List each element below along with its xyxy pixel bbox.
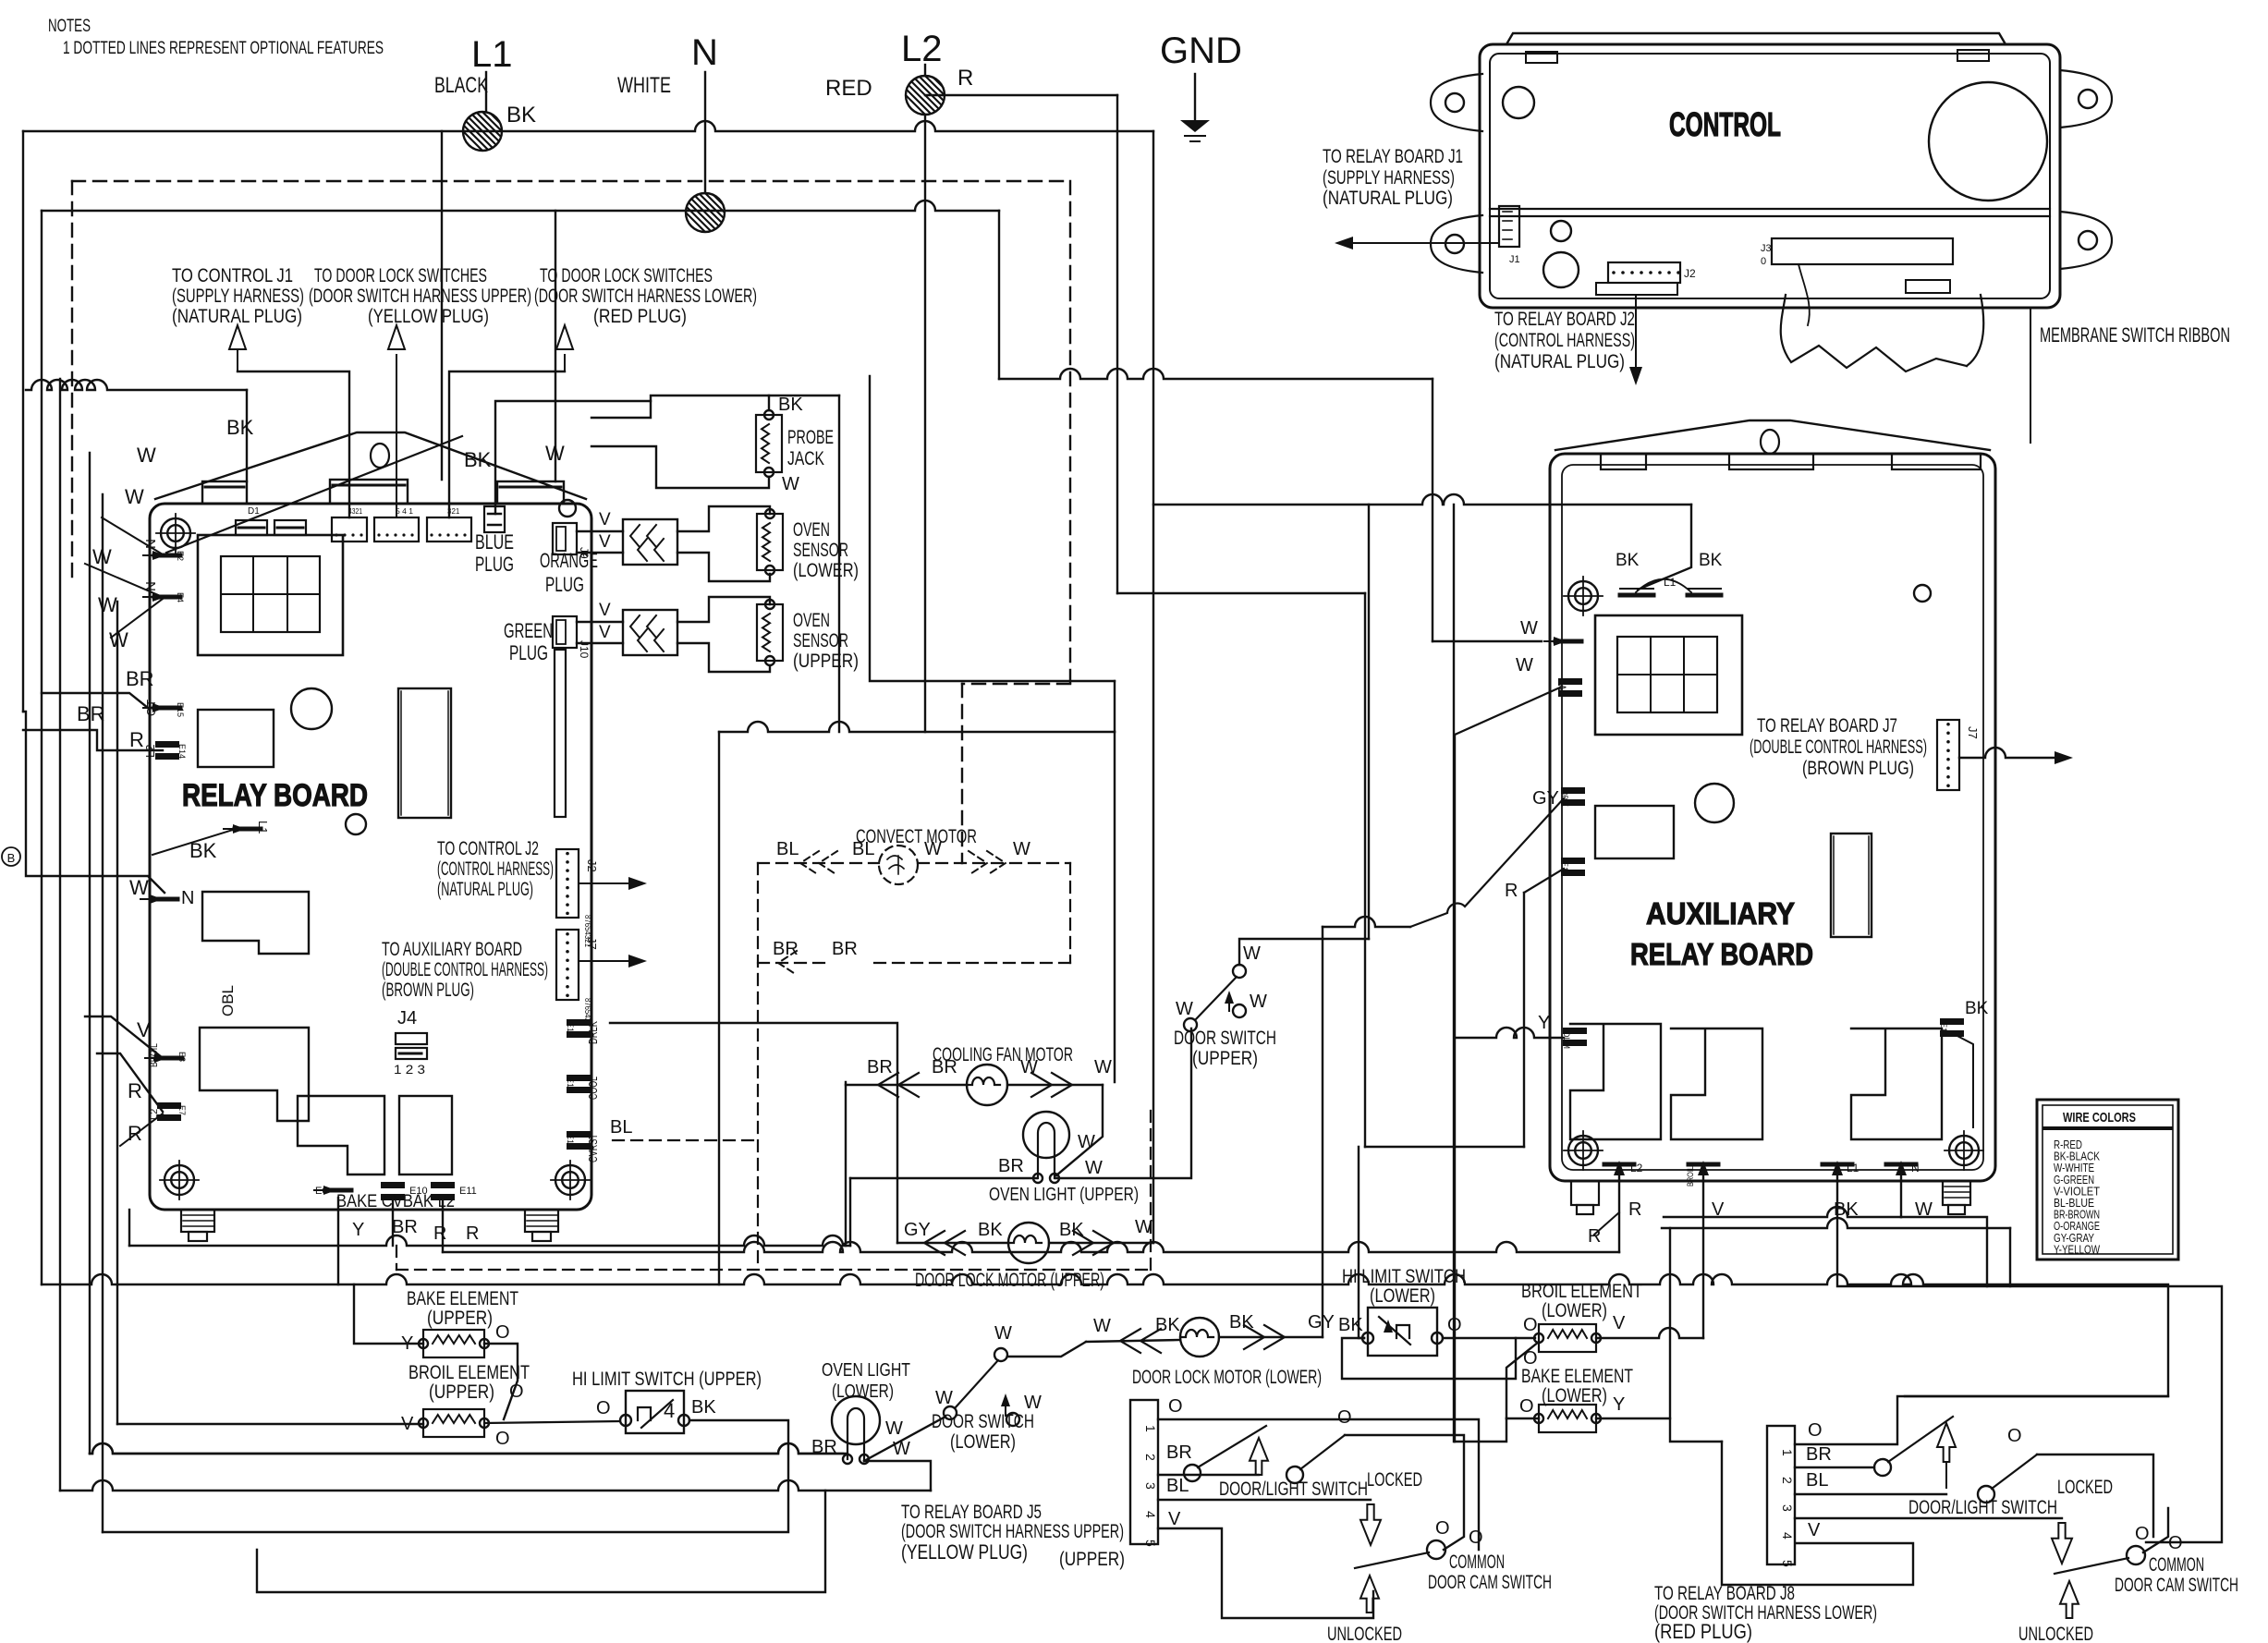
svg-text:V: V	[1613, 1313, 1626, 1333]
svg-text:OVEN: OVEN	[793, 519, 830, 541]
svg-text:GY: GY	[1532, 788, 1559, 809]
svg-text:DOOR CAM SWITCH: DOOR CAM SWITCH	[1428, 1572, 1552, 1593]
terminal E15 OT	[154, 706, 180, 711]
wire R to E7	[97, 1053, 163, 1112]
wire BR to E15	[42, 693, 163, 708]
svg-text:W: W	[1013, 839, 1030, 859]
wire x1630 down	[1455, 1418, 1506, 1442]
wire L1 BK down right	[1837, 1171, 2168, 1396]
aux top tabs	[1601, 454, 1646, 469]
terminal E12 CVRST	[567, 1131, 591, 1138]
wire hi limit BK down	[103, 1420, 788, 1532]
wire door switch lower top to motor	[1007, 1342, 1086, 1357]
svg-text:O: O	[495, 1429, 510, 1449]
svg-text:BR: BR	[126, 667, 154, 690]
svg-text:DLM: DLM	[1562, 1031, 1571, 1049]
aux board outline	[1550, 454, 1995, 1181]
svg-text:O: O	[596, 1398, 611, 1418]
control divider	[1490, 208, 2050, 210]
svg-text:TO RELAY BOARD J5: TO RELAY BOARD J5	[901, 1502, 1042, 1523]
svg-text:BR: BR	[77, 702, 105, 725]
svg-text:AUXILIARY: AUXILIARY	[1646, 896, 1795, 931]
svg-text:BAKE ELEMENT: BAKE ELEMENT	[1521, 1366, 1633, 1387]
svg-text:(LOWER): (LOWER)	[1370, 1285, 1435, 1307]
wire cooling fan right W	[1007, 1084, 1103, 1086]
wire roof feed y422	[26, 380, 247, 390]
svg-text:V: V	[599, 601, 611, 620]
svg-text:TO CONTROL J1: TO CONTROL J1	[172, 265, 293, 286]
svg-text:BK: BK	[1059, 1220, 1084, 1240]
svg-text:(UPPER): (UPPER)	[793, 651, 859, 672]
svg-text:R: R	[466, 1223, 479, 1244]
svg-text:Y: Y	[1613, 1394, 1625, 1415]
connector D1	[236, 520, 267, 535]
svg-text:E11: E11	[459, 1186, 477, 1197]
relay relay3 rect	[399, 1096, 452, 1174]
svg-text:OVEN: OVEN	[793, 610, 830, 631]
wire blue plug up	[495, 401, 651, 514]
wire J8 pin4	[1795, 1517, 2062, 1519]
door lock motor upper	[1008, 1223, 1049, 1263]
aux Y terminal	[1563, 1028, 1587, 1034]
svg-text:(NATURAL PLUG): (NATURAL PLUG)	[1323, 188, 1453, 209]
svg-text:BK: BK	[1616, 551, 1640, 570]
svg-text:LOCKED: LOCKED	[2057, 1477, 2113, 1498]
svg-text:J2: J2	[1684, 267, 1696, 280]
wire left margin vertical x25	[22, 131, 24, 712]
connector J5 relay	[374, 517, 419, 542]
wire sensor lower V wires	[577, 530, 623, 532]
svg-text:R: R	[128, 1122, 142, 1145]
svg-text:WHITE: WHITE	[617, 73, 671, 98]
svg-text:5: 5	[1143, 1540, 1158, 1547]
svg-text:BROIL: BROIL	[1686, 1166, 1695, 1187]
wire left x127	[116, 602, 118, 1424]
wire probe top	[591, 396, 769, 418]
svg-text:TO RELAY BOARD J8: TO RELAY BOARD J8	[1654, 1583, 1795, 1604]
svg-text:BR: BR	[998, 1156, 1024, 1176]
svg-text:PLUG: PLUG	[475, 553, 514, 576]
svg-text:W: W	[109, 628, 128, 651]
wire BR run y1348	[129, 1235, 850, 1246]
wire x778 vertical	[718, 732, 720, 1284]
svg-text:O: O	[1523, 1315, 1538, 1335]
wire R net bottom	[1365, 1146, 1524, 1148]
aux rect component	[1595, 806, 1674, 858]
wire W roof diagonal	[166, 436, 462, 553]
svg-text:NOTES: NOTES	[48, 17, 91, 36]
svg-text:R: R	[128, 1079, 142, 1102]
svg-text:BK: BK	[1965, 999, 1989, 1018]
svg-text:O: O	[1519, 1396, 1534, 1417]
wire sensor upper V wires	[577, 621, 623, 623]
wire left x111	[102, 494, 104, 1532]
wire dashed optional top y196	[72, 180, 1070, 182]
wire W y1613	[60, 1480, 931, 1491]
svg-text:(CONTROL HARNESS): (CONTROL HARNESS)	[437, 858, 554, 880]
svg-text:W: W	[1520, 618, 1538, 639]
aux board roof	[1555, 420, 1990, 450]
svg-text:E3: E3	[177, 1052, 187, 1062]
wire left x97	[89, 453, 91, 1454]
aux transformer	[1595, 615, 1742, 735]
wire right cam O loop	[2146, 1286, 2222, 1542]
relay screws	[161, 518, 190, 548]
wire x1863 to J8 V	[1722, 1442, 1913, 1585]
svg-text:E4: E4	[176, 592, 185, 602]
wire broil upper V	[117, 1423, 423, 1425]
svg-text:W: W	[1020, 1057, 1038, 1077]
wire broil lower O diagonal	[1506, 1342, 1539, 1418]
svg-text:BLACK: BLACK	[434, 73, 488, 98]
control circle big	[1929, 82, 2047, 201]
control connector J2	[1608, 262, 1680, 283]
wire control J2 down arrow	[1635, 295, 1637, 379]
svg-text:(UPPER): (UPPER)	[1059, 1549, 1125, 1570]
svg-text:BL: BL	[776, 839, 799, 859]
svg-text:WIRE COLORS: WIRE COLORS	[2063, 1110, 2136, 1126]
svg-text:BK: BK	[1229, 1312, 1254, 1333]
svg-text:PLUG: PLUG	[509, 641, 548, 664]
svg-text:DOOR LOCK MOTOR (UPPER): DOOR LOCK MOTOR (UPPER)	[915, 1270, 1104, 1291]
svg-text:N: N	[181, 888, 194, 908]
wire sensor lower to resistor	[677, 506, 770, 531]
svg-text:V: V	[599, 510, 611, 529]
connector J7 relay edge	[556, 930, 579, 1000]
svg-text:(BROWN PLUG): (BROWN PLUG)	[382, 980, 474, 1001]
door light switch arrow	[1250, 1438, 1268, 1475]
svg-text:W: W	[1516, 655, 1533, 675]
wire dashed left vertical x78	[71, 181, 73, 582]
aux bottom relay2	[1671, 1028, 1762, 1139]
wire hi limit lower O to broil lower	[1443, 1337, 1535, 1339]
svg-text:GY: GY	[1308, 1312, 1335, 1333]
svg-text:BR: BR	[867, 1057, 893, 1077]
control right ear lower	[2060, 212, 2112, 269]
aux screws	[1568, 581, 1598, 611]
svg-text:BK: BK	[691, 1397, 716, 1418]
svg-text:DOOR LOCK MOTOR (LOWER): DOOR LOCK MOTOR (LOWER)	[1132, 1367, 1322, 1388]
wire hi limit lower BK	[1359, 1147, 1364, 1338]
svg-text:W: W	[92, 545, 112, 568]
svg-text:4: 4	[664, 1399, 675, 1422]
control connector J3 ribbon	[1772, 238, 1953, 264]
orange plug connector	[553, 523, 577, 554]
svg-text:L2: L2	[149, 1109, 160, 1120]
svg-text:BLUE: BLUE	[475, 530, 514, 554]
svg-text:L1: L1	[256, 821, 270, 834]
terminal E7	[157, 1102, 181, 1109]
foot right	[525, 1210, 558, 1232]
connector J2 relay edge	[556, 849, 579, 918]
svg-text:(UPPER): (UPPER)	[427, 1308, 493, 1329]
svg-text:O: O	[2007, 1426, 2022, 1446]
svg-text:RED: RED	[825, 76, 872, 101]
wire bake upper O to broil	[484, 1344, 518, 1419]
svg-text:W: W	[1555, 682, 1568, 693]
svg-text:(NATURAL PLUG): (NATURAL PLUG)	[1494, 351, 1625, 372]
svg-text:1: 1	[1143, 1425, 1158, 1432]
wire N to aux W terminal y694	[1433, 640, 1542, 642]
svg-text:BROIL ELEMENT: BROIL ELEMENT	[408, 1362, 530, 1383]
svg-text:Y: Y	[352, 1220, 364, 1240]
svg-text:BAKE CVBAK L2: BAKE CVBAK L2	[336, 1192, 455, 1211]
svg-text:BL: BL	[852, 839, 874, 859]
aux bottom terminal L1	[1823, 1162, 1852, 1167]
svg-text:E13: E13	[566, 1077, 575, 1092]
membrane ribbon	[1781, 295, 1967, 371]
svg-text:(YELLOW PLUG): (YELLOW PLUG)	[368, 306, 489, 327]
wire dashed vertical x820	[757, 863, 759, 1270]
wire locked corner right	[2037, 1454, 2153, 1537]
wire long y1390	[42, 1274, 2168, 1284]
svg-text:BR: BR	[1166, 1442, 1192, 1463]
svg-text:GREEN: GREEN	[504, 619, 553, 642]
svg-text:(SUPPLY HARNESS): (SUPPLY HARNESS)	[1323, 167, 1455, 189]
svg-text:BR: BR	[1806, 1444, 1832, 1465]
wire V to E3	[85, 1016, 163, 1058]
svg-text:DOOR/LIGHT SWITCH: DOOR/LIGHT SWITCH	[1219, 1479, 1368, 1500]
wire x941	[870, 376, 1115, 681]
svg-text:L2: L2	[1630, 1162, 1643, 1174]
harness plug lower sensor	[623, 519, 677, 565]
svg-text:DRLK: DRLK	[586, 1021, 600, 1044]
svg-text:O: O	[495, 1322, 510, 1343]
svg-text:W: W	[1176, 999, 1193, 1019]
aux capacitor	[1695, 784, 1734, 822]
wire dashed vertical x1158	[1069, 181, 1071, 684]
svg-text:W: W	[994, 1323, 1012, 1344]
aux feet	[1571, 1181, 1599, 1205]
svg-text:W: W	[924, 839, 942, 859]
svg-text:W: W	[1094, 1057, 1112, 1077]
wire y1573 BR run	[90, 1443, 847, 1454]
connector J8	[1767, 1426, 1795, 1564]
wire bake lower Y right	[1596, 1418, 1670, 1419]
svg-text:RELAY BOARD: RELAY BOARD	[182, 778, 368, 813]
wire BK drop x1248	[1152, 131, 1154, 1243]
svg-text:GY: GY	[904, 1220, 931, 1240]
wire N staircase y410	[998, 211, 1000, 379]
wire door lock motor upper GY left	[897, 1242, 1008, 1244]
svg-text:JACK: JACK	[787, 448, 824, 469]
relay board outline	[150, 504, 591, 1210]
svg-text:V: V	[1168, 1509, 1181, 1529]
svg-text:BK: BK	[1699, 551, 1723, 570]
relay board top connector strips	[202, 481, 247, 504]
arrow aux J7 out	[1959, 748, 2067, 758]
svg-text:4: 4	[1143, 1511, 1158, 1518]
svg-text:W: W	[1085, 1158, 1103, 1178]
svg-text:TO RELAY BOARD J1: TO RELAY BOARD J1	[1323, 146, 1463, 167]
wire N bus y228	[42, 201, 999, 211]
svg-text:OBL: OBL	[219, 985, 237, 1016]
svg-text:V: V	[137, 1018, 151, 1041]
svg-text:(DOUBLE CONTROL HARNESS): (DOUBLE CONTROL HARNESS)	[1750, 736, 1927, 758]
wire GY diagonal to aux	[1410, 798, 1564, 927]
terminal E3 broil	[156, 1056, 182, 1061]
svg-text:J3: J3	[1761, 243, 1772, 254]
svg-text:BK: BK	[978, 1220, 1003, 1240]
svg-text:3: 3	[1780, 1504, 1795, 1512]
wire L2 R down	[1618, 1170, 1620, 1252]
wire y792 run	[719, 722, 1115, 732]
svg-text:CVRST: CVRST	[586, 1134, 600, 1162]
wire bake lower O left	[1506, 1418, 1539, 1419]
aux J7 connector	[1937, 720, 1959, 790]
wire W diagonal to aux	[1455, 688, 1560, 735]
aux bottom relay3	[1851, 1028, 1942, 1139]
control lower circles	[1551, 221, 1571, 241]
wire left margin vertical x45	[41, 211, 43, 1284]
svg-text:J7: J7	[585, 937, 599, 950]
control left ear upper	[1431, 74, 1482, 131]
svg-text:2: 2	[1143, 1454, 1158, 1461]
terminal L1 bottom	[235, 827, 261, 832]
arrow to door lock lower	[449, 371, 565, 517]
wire bake upper Y	[337, 1198, 339, 1284]
wire dlm lower right GY	[1219, 1336, 1323, 1338]
svg-text:O: O	[2135, 1524, 2150, 1544]
svg-text:B: B	[7, 851, 16, 865]
svg-text:HI LIMIT SWITCH (UPPER): HI LIMIT SWITCH (UPPER)	[572, 1369, 762, 1390]
wire door lock motor upper BK/W	[1049, 1242, 1153, 1244]
wire W diagonals to board	[102, 517, 163, 554]
svg-text:PROBE: PROBE	[787, 427, 834, 448]
svg-text:COMMON: COMMON	[2149, 1554, 2204, 1576]
svg-text:PLUG: PLUG	[545, 573, 584, 596]
svg-text:BAKE ELEMENT: BAKE ELEMENT	[407, 1288, 518, 1309]
svg-text:W: W	[545, 442, 565, 465]
wire Y into aux	[1455, 1028, 1564, 1038]
svg-text:W: W	[1078, 1132, 1095, 1152]
svg-text:N: N	[691, 32, 718, 73]
svg-text:(NATURAL PLUG): (NATURAL PLUG)	[437, 879, 533, 900]
svg-text:W: W	[782, 474, 799, 494]
svg-text:J1: J1	[1509, 254, 1520, 265]
arrow to door lock upper	[396, 355, 397, 517]
wire y1723 row	[257, 1491, 825, 1592]
svg-text:V: V	[1808, 1520, 1821, 1540]
svg-text:CONTROL: CONTROL	[1669, 105, 1781, 143]
wire locked corner left	[1345, 1435, 1464, 1550]
svg-text:E15: E15	[176, 702, 185, 717]
svg-text:3: 3	[1143, 1482, 1158, 1490]
connector J8 relay	[427, 517, 471, 542]
wire BR vertical x920	[849, 1178, 851, 1246]
relay small circle	[346, 814, 366, 834]
svg-text:LOCKED: LOCKED	[1367, 1469, 1422, 1491]
svg-text:0: 0	[1761, 256, 1766, 267]
svg-text:E14: E14	[177, 744, 187, 759]
svg-text:D1: D1	[248, 506, 260, 517]
wire BK bus y546 to aux	[1153, 494, 1691, 505]
wire door switch lower pivot diagonal	[864, 1417, 945, 1461]
arrow to control J1	[238, 371, 349, 517]
svg-text:(DOUBLE CONTROL HARNESS): (DOUBLE CONTROL HARNESS)	[382, 959, 548, 980]
svg-text:COOL: COOL	[586, 1077, 600, 1100]
svg-text:BK: BK	[506, 103, 536, 128]
svg-text:TO DOOR LOCK SWITCHES: TO DOOR LOCK SWITCHES	[540, 265, 713, 286]
svg-text:(YELLOW PLUG): (YELLOW PLUG)	[901, 1540, 1028, 1564]
oven light upper	[1023, 1112, 1069, 1158]
svg-text:L1: L1	[1847, 1162, 1860, 1174]
svg-text:BR: BR	[832, 939, 858, 959]
wire oven light upper W to door switch	[1055, 1028, 1191, 1178]
svg-text:(UPPER): (UPPER)	[1192, 1048, 1258, 1069]
wire convect dashed right W	[918, 862, 1070, 864]
svg-text:O: O	[1808, 1420, 1823, 1441]
relay relay1 polygon	[200, 1028, 309, 1121]
svg-text:(LOWER): (LOWER)	[832, 1381, 894, 1402]
svg-text:(DOOR SWITCH HARNESS LOWER): (DOOR SWITCH HARNESS LOWER)	[534, 286, 757, 307]
aux bottom terminal N	[1886, 1162, 1916, 1167]
svg-text:UNLOCKED: UNLOCKED	[2018, 1624, 2093, 1643]
svg-text:(LOWER): (LOWER)	[950, 1431, 1016, 1453]
svg-text:BL: BL	[1806, 1470, 1828, 1491]
green plug connector	[553, 616, 577, 648]
svg-text:(RED PLUG): (RED PLUG)	[1654, 1620, 1752, 1643]
svg-text:N: N	[1911, 1162, 1920, 1174]
aux W2 terminal	[1558, 678, 1582, 685]
relay rect component	[198, 710, 274, 767]
wire x1574 from W diag down	[1454, 735, 1456, 1442]
wire x1807 vertical	[1670, 1228, 1722, 1442]
svg-text:OVEN LIGHT (UPPER): OVEN LIGHT (UPPER)	[989, 1185, 1139, 1205]
wire door switch upper top W	[1239, 939, 1369, 965]
aux R terminal	[1561, 858, 1585, 864]
wire left x65	[59, 379, 61, 1491]
svg-text:W: W	[1093, 1316, 1111, 1336]
wire control right down to aux	[2030, 308, 2031, 443]
svg-text:BK: BK	[1155, 1315, 1180, 1335]
foot left	[181, 1210, 214, 1232]
wire oven light lower BR	[90, 1443, 843, 1454]
connector J5	[1130, 1400, 1158, 1544]
wire GY vertical x971	[610, 1023, 897, 1243]
aux bottom terminal BROIL	[1689, 1162, 1718, 1167]
arrow J7 out	[579, 960, 641, 962]
wire x1206 down	[1114, 681, 1116, 732]
svg-text:(CONTROL HARNESS): (CONTROL HARNESS)	[1494, 330, 1635, 351]
aux ic rect	[1831, 834, 1872, 937]
svg-text:1 2 3: 1 2 3	[394, 1062, 425, 1077]
wire R long run y1355	[443, 1242, 1619, 1252]
svg-text:W: W	[137, 444, 156, 467]
svg-text:TO AUXILIARY BOARD: TO AUXILIARY BOARD	[382, 939, 522, 960]
wire sensor upper to resistor	[677, 597, 770, 622]
svg-text:O: O	[1435, 1518, 1450, 1539]
svg-text:R: R	[1628, 1199, 1641, 1220]
svg-text:R: R	[129, 728, 144, 751]
terminal E13 COOL	[567, 1075, 591, 1081]
svg-text:E12: E12	[566, 1134, 575, 1149]
svg-text:BL: BL	[1166, 1476, 1189, 1496]
wire L1 black bus y142	[23, 121, 1153, 131]
svg-text:2: 2	[1780, 1477, 1795, 1484]
probe jack	[756, 415, 782, 472]
door lock motor lower	[1180, 1318, 1219, 1357]
svg-text:(DOOR SWITCH HARNESS UPPER): (DOOR SWITCH HARNESS UPPER)	[309, 286, 531, 307]
control right ear upper	[2060, 70, 2112, 128]
wire convect dashed BR pair	[758, 962, 832, 964]
relay bottom terminals	[325, 1188, 351, 1193]
control top tabs	[1526, 52, 1557, 63]
svg-text:W: W	[885, 1418, 903, 1439]
wire BK bus into aux terminals	[1638, 505, 1691, 590]
relay ribbon slot	[555, 650, 566, 817]
svg-text:(SUPPLY HARNESS): (SUPPLY HARNESS)	[172, 286, 304, 307]
